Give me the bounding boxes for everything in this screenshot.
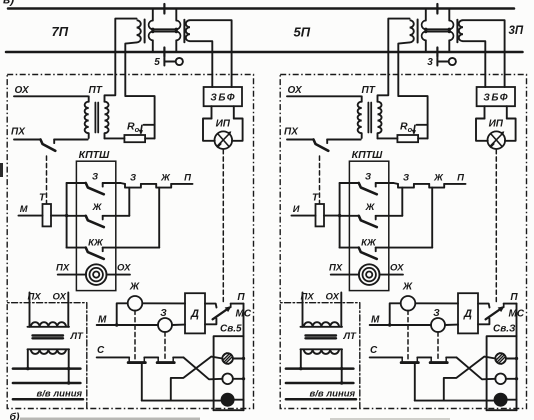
relay common bus wire (right) <box>339 183 341 248</box>
svg-text:3: 3 <box>427 57 433 68</box>
joint symbol tick (left) <box>163 58 165 66</box>
transformer core left (left) <box>144 20 146 43</box>
wire Zh to decoder D (left) <box>142 302 185 304</box>
KPTSh motor (left) <box>86 264 107 285</box>
block IP outline (left) <box>203 119 215 141</box>
svg-text:П: П <box>510 292 518 303</box>
svg-text:З: З <box>130 173 136 184</box>
joint symbol wire (right) <box>437 61 448 63</box>
junction dot M bus (left) <box>65 214 68 217</box>
dashed link IP to contact P (left) <box>222 150 224 302</box>
transformer LT secondary (right) <box>301 348 343 350</box>
svg-text:Т: Т <box>312 193 319 204</box>
block ZBF box (right) <box>477 87 515 106</box>
svg-text:Д: Д <box>463 308 472 320</box>
indicator lamp IP (right) <box>488 131 506 149</box>
decoder D box (right) <box>458 293 478 333</box>
dashed link lamp Zh to contact (right) <box>407 310 409 361</box>
junction dots on line (right) <box>299 367 302 370</box>
transformer PT secondary winding (left) <box>104 101 106 103</box>
wire Zh fixed riser (left) <box>128 188 130 216</box>
transmitter T body (right) <box>316 204 325 226</box>
svg-text:М: М <box>20 204 28 214</box>
motor wire left (right) <box>331 274 359 276</box>
transformer LT core (right) <box>306 334 337 336</box>
line transformer compartment (left) <box>7 303 87 409</box>
relay Zh coil (left) <box>128 296 143 311</box>
track transformer primary right winding (right) <box>448 9 450 21</box>
block IP outline (right) <box>476 119 488 141</box>
lamp yellow wire to MS bus (left) <box>233 358 244 360</box>
resistor Ro left wire (left) <box>105 137 125 139</box>
svg-text:Св.5: Св.5 <box>220 324 242 335</box>
junction dots on jumpers (right) <box>424 28 427 31</box>
scan smudge bottom edge <box>20 418 200 420</box>
resistor Ro right wire (left) <box>145 137 155 139</box>
svg-text:ИП: ИП <box>489 119 504 130</box>
equipment cabinet box (right) <box>280 75 526 409</box>
transformer LT secondary (left) <box>28 348 70 350</box>
svg-text:Ж: Ж <box>365 202 376 213</box>
svg-text:3П: 3П <box>509 25 524 37</box>
svg-text:Ж: Ж <box>160 173 171 184</box>
wire D to contact P common (left) <box>205 304 217 308</box>
svg-text:Rо: Rо <box>127 121 140 135</box>
track transformer relay-end coil (right) <box>459 20 463 41</box>
resistor Ro body (left) <box>124 135 145 142</box>
crossover wire up (left) <box>171 357 223 401</box>
LT wire PX (left) <box>29 293 31 327</box>
junction dot M bus (right) <box>338 214 341 217</box>
svg-text:Ж: Ж <box>433 173 444 184</box>
crossover wire up (right) <box>444 357 496 401</box>
transformer core right (right) <box>456 20 458 42</box>
signal lamp green (open) (left) <box>222 374 233 385</box>
power line wire 3 (left) <box>13 398 83 401</box>
lamp green wire to MS bus (right) <box>506 378 517 380</box>
wire Zh to decoder D (right) <box>415 302 458 304</box>
LT secondary wire left (right) <box>300 349 302 368</box>
wire P to MS bus (left) <box>231 303 244 305</box>
svg-text:ОХ: ОХ <box>15 85 31 96</box>
wire C (right) <box>370 356 403 358</box>
wire D lower to blade pivot (right) <box>478 319 489 325</box>
transformer PT secondary winding (right) <box>377 101 379 103</box>
svg-text:М: М <box>98 315 107 326</box>
LT wire OX (left) <box>67 293 69 327</box>
transformer PT primary winding (right) <box>361 96 363 101</box>
contact fire Zh (right) <box>401 357 403 362</box>
contact P blade arrow (left) <box>213 308 230 320</box>
svg-text:КЖ: КЖ <box>361 238 377 249</box>
svg-text:П: П <box>237 292 245 303</box>
svg-text:З: З <box>365 172 371 183</box>
svg-text:М: М <box>371 315 380 326</box>
signal lamp green (open) (right) <box>495 374 506 385</box>
svg-text:С: С <box>97 345 105 356</box>
transformer LT core (left) <box>33 334 64 336</box>
decoder D box (left) <box>185 293 205 333</box>
dashed link PX contact to transmitter T (right) <box>319 156 321 204</box>
wire ZBF to IP right (right) <box>506 106 508 118</box>
svg-text:б): б) <box>10 411 21 420</box>
contact KZh of KPTSh (left) <box>67 247 86 249</box>
track transformer secondary left coil (left) <box>115 19 136 52</box>
rail top <box>8 7 514 10</box>
dashed link lamp Zh to contact (left) <box>134 310 136 361</box>
contact fire Z (left) <box>157 357 159 362</box>
track transformer relay-end coil (left) <box>186 20 190 41</box>
wire Z to decoder D (right) <box>445 324 458 326</box>
junction dots on line (left) <box>26 367 29 370</box>
svg-text:З: З <box>403 173 409 184</box>
contact Z relay (front) (right) <box>398 184 414 188</box>
wire between Z and Zh contacts (right) <box>414 183 429 185</box>
transformer PT core (right) <box>367 103 369 133</box>
transformer core left (right) <box>417 20 419 43</box>
lamp red wire to MS bus (right) <box>507 399 517 401</box>
svg-text:Ж: Ж <box>129 282 140 293</box>
motor wire right (right) <box>380 274 403 276</box>
wire to signal chain (right) <box>394 182 399 185</box>
wire Zh to M junction (right) <box>390 303 401 325</box>
bus MS vertical (left) <box>243 304 245 411</box>
svg-text:в/в линия: в/в линия <box>310 389 356 400</box>
wire secondary terminal B down to Ro (right) <box>398 52 427 138</box>
junction dots on MS bus (right) <box>515 357 518 360</box>
svg-text:Ж: Ж <box>92 202 103 213</box>
relay Zh coil (right) <box>401 296 416 311</box>
transformer LT primary (right) <box>301 326 343 328</box>
resistor Ro body (right) <box>397 135 418 142</box>
joint symbol wire (left) <box>164 61 175 63</box>
track transformer primary right winding (left) <box>175 9 177 21</box>
power line wire 1 (right) <box>286 367 354 370</box>
junction dots on MS bus (left) <box>242 357 245 360</box>
wire secondary terminal B down to Ro (left) <box>125 52 154 138</box>
wire KZh fixed riser (left) <box>158 188 160 248</box>
wire ZBF to IP right (left) <box>233 106 235 118</box>
signal lamp red (filled) (right) <box>494 394 506 406</box>
wire C (left) <box>97 356 130 358</box>
junction dot on M wire (left) <box>115 323 118 326</box>
LT wire PX (right) <box>302 293 304 327</box>
insulated joint bottom rail (right) <box>436 48 438 57</box>
rail bottom <box>6 51 523 54</box>
wire M left (left) <box>19 215 43 217</box>
transformer core right (left) <box>183 20 185 42</box>
dashed link lamp Z to contact (left) <box>164 332 166 361</box>
wire Zh to M junction (left) <box>117 303 128 325</box>
line transformer compartment (right) <box>280 303 360 409</box>
wire to node P (left) <box>171 183 192 185</box>
bus MS vertical (right) <box>516 304 518 411</box>
svg-text:П: П <box>184 173 191 184</box>
joint symbol circle (left) <box>176 58 183 65</box>
contact Z relay (front) (left) <box>125 184 141 188</box>
contact PX (right) <box>287 139 314 141</box>
contact fire Z (right) <box>430 357 432 362</box>
transmitter T body (left) <box>43 204 52 226</box>
svg-text:ОХ: ОХ <box>326 292 340 303</box>
LT secondary wire right (left) <box>68 349 70 383</box>
lamp yellow wire to MS bus (right) <box>506 358 517 360</box>
svg-text:ПХ: ПХ <box>56 263 70 274</box>
contact Zh relay (front) (right) <box>429 184 444 188</box>
svg-text:ПТ: ПТ <box>89 85 103 96</box>
wire M to common bus (left) <box>51 215 67 217</box>
lamp green wire to MS bus (left) <box>233 378 244 380</box>
contact KZh of KPTSh (right) <box>340 247 359 249</box>
wire D to contact P common (right) <box>478 304 490 308</box>
ink blob left margin <box>0 163 3 177</box>
wire C segment 3 (left) <box>173 356 183 358</box>
motor wire right (left) <box>107 274 130 276</box>
LT wire OX (right) <box>340 293 342 327</box>
signal lamp red (filled) (left) <box>221 394 233 406</box>
contact P fixed tick (right) <box>503 304 505 308</box>
svg-text:5П: 5П <box>294 24 311 39</box>
svg-text:ПТ: ПТ <box>362 85 376 96</box>
transformer LT primary (left) <box>28 326 70 328</box>
contact Zh relay (front) (left) <box>156 184 171 188</box>
wire Zh fixed riser (right) <box>401 188 403 216</box>
joint symbol circle (right) <box>449 58 456 65</box>
track transformer secondary left coil (right) <box>388 19 409 52</box>
code transmitter KPTSh box (right) <box>349 161 388 290</box>
dashed link PX contact to transmitter T (left) <box>46 156 48 204</box>
svg-text:И: И <box>293 204 300 214</box>
LT secondary wire right (right) <box>341 349 343 383</box>
crossover wire down (left) <box>183 357 222 379</box>
wire C segment 2 (right) <box>417 356 431 358</box>
signal lamp yellow (hatched) (left) <box>222 353 233 364</box>
insulated joint top rail (left) <box>163 4 165 14</box>
wire OX (left) <box>14 95 88 97</box>
indicator lamp IP (left) <box>215 131 233 149</box>
wire M lamp feed (right) <box>370 324 431 326</box>
resistor Ro slider arrow (left) <box>144 124 155 126</box>
svg-text:ОХ: ОХ <box>117 263 131 274</box>
svg-text:Д: Д <box>190 308 199 320</box>
dashed link lamp Z to contact (right) <box>437 332 439 361</box>
relay Z coil (right) <box>431 318 445 332</box>
wire M to common bus (right) <box>324 215 340 217</box>
svg-text:в): в) <box>3 0 14 7</box>
svg-text:ИП: ИП <box>216 119 231 130</box>
svg-text:ПХ: ПХ <box>284 127 299 138</box>
LT secondary wire left (left) <box>27 349 29 368</box>
transformer PT core (left) <box>94 103 96 133</box>
svg-text:КПТШ: КПТШ <box>352 149 383 161</box>
lamp red wire to MS bus (left) <box>234 399 244 401</box>
wire M lamp feed (left) <box>97 324 158 326</box>
wire C segment 2 (left) <box>144 356 158 358</box>
svg-text:КПТШ: КПТШ <box>79 149 110 161</box>
junction dots on jumpers (left) <box>151 28 154 31</box>
equipment cabinet box (left) <box>7 75 253 409</box>
wire to signal chain (left) <box>121 182 126 185</box>
wire KZh fixed riser (right) <box>431 188 433 248</box>
wire Z to decoder D (left) <box>172 324 185 326</box>
svg-text:ЗБФ: ЗБФ <box>483 93 509 104</box>
wire ZBF to IP left (left) <box>211 106 213 118</box>
transformer PT primary winding (left) <box>88 96 90 101</box>
wire P to MS bus (right) <box>504 303 517 305</box>
power line wire 3 (right) <box>286 398 356 401</box>
svg-text:Ж: Ж <box>402 282 413 293</box>
wire C segment 3 (right) <box>446 356 456 358</box>
svg-text:ОХ: ОХ <box>288 85 304 96</box>
power line wire 2 (right) <box>286 382 354 385</box>
contact Zh of KPTSh (left) <box>67 215 86 217</box>
block ZBF box (left) <box>204 87 242 106</box>
wire between Z and Zh contacts (left) <box>141 183 156 185</box>
svg-text:ЗБФ: ЗБФ <box>210 93 236 104</box>
jumper wires between primaries (left) <box>153 28 177 30</box>
wire to red lamp (right) <box>414 363 416 401</box>
svg-text:ПХ: ПХ <box>11 127 26 138</box>
insulated joint bottom rail (left) <box>163 48 165 57</box>
junction dot on M wire (right) <box>388 323 391 326</box>
jumper wires between primaries (right) <box>426 28 450 30</box>
svg-text:5: 5 <box>154 57 160 68</box>
relay common bus wire (left) <box>66 183 68 248</box>
wire secondary terminal A down to PT (left) <box>105 52 116 102</box>
signal lamp yellow (hatched) (right) <box>495 353 506 364</box>
dashed link IP to contact P (right) <box>495 150 497 302</box>
contact Z of KPTSh (left) <box>67 182 86 184</box>
wire to node P (right) <box>444 183 465 185</box>
svg-text:С: С <box>370 345 378 356</box>
crossover wire down (right) <box>456 357 495 379</box>
wire D lower to blade pivot (left) <box>205 319 216 325</box>
wire secondary terminal A down to PT (right) <box>378 52 389 102</box>
wire OX (right) <box>287 95 361 97</box>
svg-text:П: П <box>457 173 464 184</box>
joint symbol tick (right) <box>436 58 438 66</box>
power line wire 1 (left) <box>13 367 81 370</box>
wire M left (right) <box>292 215 316 217</box>
svg-text:З: З <box>92 172 98 183</box>
motor wire left (left) <box>58 274 86 276</box>
svg-text:ЛТ: ЛТ <box>70 331 85 342</box>
contact Z of KPTSh (right) <box>340 182 359 184</box>
svg-text:ЛТ: ЛТ <box>343 331 358 342</box>
contact PX (left) <box>14 139 41 141</box>
relay Z coil (left) <box>158 318 172 332</box>
svg-text:в/в линия: в/в линия <box>37 389 83 400</box>
signal head box (right) <box>487 336 517 410</box>
svg-text:7П: 7П <box>52 24 69 39</box>
wire ZBF to IP left (right) <box>484 106 486 118</box>
svg-text:ОХ: ОХ <box>390 263 404 274</box>
svg-text:КЖ: КЖ <box>88 238 104 249</box>
svg-text:Св.З: Св.З <box>493 324 516 335</box>
code transmitter KPTSh box (left) <box>76 161 115 290</box>
svg-text:ОХ: ОХ <box>53 292 67 303</box>
svg-text:Rо: Rо <box>400 121 413 135</box>
svg-text:ПХ: ПХ <box>329 263 343 274</box>
insulated joint top rail (right) <box>436 4 438 14</box>
resistor Ro slider arrow (right) <box>417 124 428 126</box>
wire to red lamp (left) <box>141 363 143 401</box>
track transformer primary left winding (left) <box>152 9 154 21</box>
resistor Ro right wire (right) <box>418 137 428 139</box>
contact Zh of KPTSh (right) <box>340 215 359 217</box>
power line wire 2 (left) <box>13 382 81 385</box>
signal head box (left) <box>214 336 244 410</box>
svg-text:Т: Т <box>39 193 46 204</box>
KPTSh motor (right) <box>359 264 380 285</box>
contact fire Zh (left) <box>128 357 130 362</box>
contact P fixed tick (left) <box>230 304 232 308</box>
resistor Ro left wire (right) <box>378 137 398 139</box>
track transformer primary left winding (right) <box>425 9 427 21</box>
contact P blade arrow (right) <box>486 308 503 320</box>
